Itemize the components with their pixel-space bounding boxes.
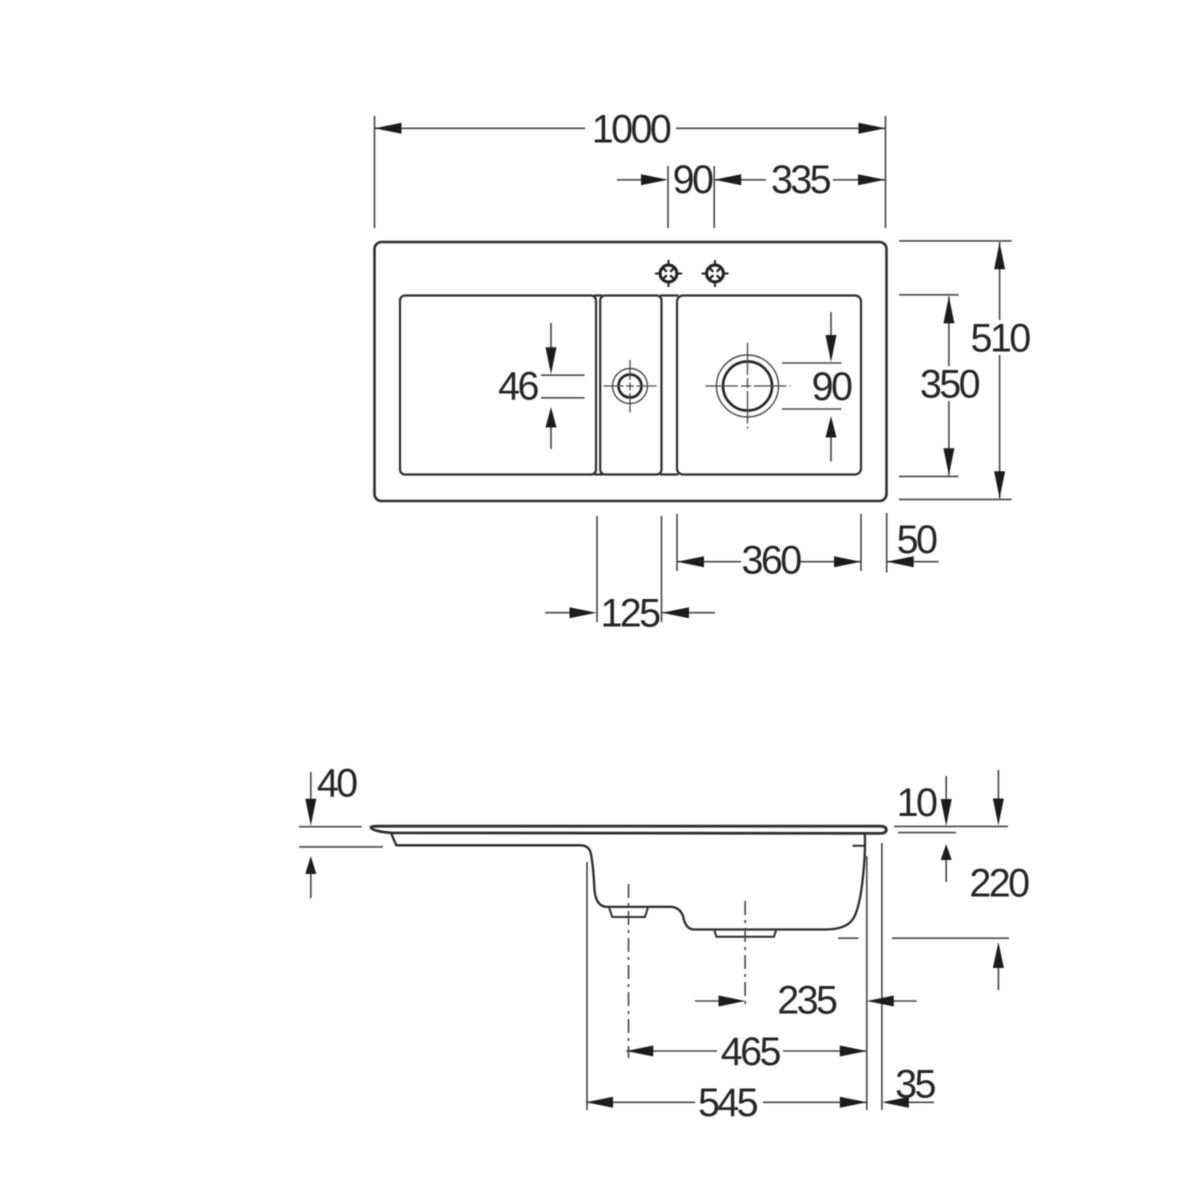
svg-text:360: 360 (742, 539, 802, 583)
svg-text:35: 35 (895, 1062, 935, 1106)
tap hole 1 (655, 260, 682, 287)
dim 10 (894, 776, 1008, 882)
dim 220 (838, 770, 1009, 990)
bowl profile (391, 833, 865, 930)
main drain boss (715, 931, 777, 937)
rim bar (371, 826, 886, 833)
svg-text:465: 465 (721, 1030, 781, 1074)
rim inner back edge (853, 845, 865, 847)
svg-text:220: 220 (969, 862, 1029, 906)
svg-text:125: 125 (600, 592, 660, 636)
tap hole 2 (702, 260, 729, 287)
svg-text:350: 350 (920, 362, 980, 406)
dim 545 (586, 1101, 867, 1103)
drainer board rect (400, 296, 596, 475)
svg-text:50: 50 (897, 518, 937, 562)
svg-text:40: 40 (317, 762, 357, 806)
svg-text:46: 46 (498, 365, 538, 409)
main bowl drain (706, 343, 791, 429)
main bowl rect (677, 296, 861, 475)
dim 235 (695, 1000, 917, 1002)
svg-text:335: 335 (771, 158, 831, 202)
extension lines below section (587, 843, 882, 1110)
dim 90 (tap holes) + 335 (617, 166, 885, 228)
dim 35 (905, 1101, 934, 1103)
dim 125 (545, 516, 715, 622)
dim 360 (677, 514, 861, 571)
dim 510 (899, 241, 1012, 500)
dim 50 (887, 513, 939, 573)
dim 350 (899, 295, 959, 477)
svg-text:510: 510 (971, 317, 1031, 361)
dim 90 (main drain) (782, 312, 842, 462)
sink outer outline (375, 242, 887, 501)
dim 40 (299, 772, 383, 898)
svg-text:90: 90 (673, 158, 713, 202)
svg-text:90: 90 (812, 365, 852, 409)
svg-text:545: 545 (698, 1081, 758, 1125)
dim 465 (626, 1050, 867, 1052)
half-bowl drain (604, 360, 658, 413)
svg-text:1000: 1000 (592, 107, 671, 151)
basin rim bridge lines (594, 296, 679, 475)
dim 46 (half-bowl drain) (541, 323, 585, 449)
half-bowl drain boss (609, 908, 648, 917)
svg-text:10: 10 (897, 781, 937, 825)
dim 1000 (375, 116, 886, 228)
half bowl rect (600, 296, 661, 475)
svg-text:235: 235 (777, 979, 837, 1023)
